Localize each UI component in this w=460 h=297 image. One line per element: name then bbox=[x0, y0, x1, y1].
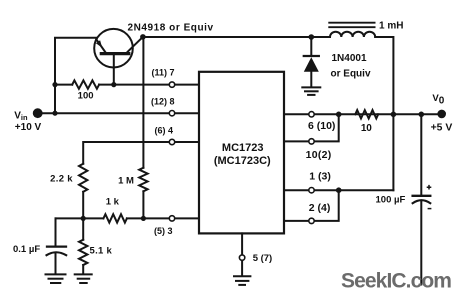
svg-text:6 (10): 6 (10) bbox=[308, 120, 335, 132]
svg-text:V0: V0 bbox=[432, 93, 444, 106]
svg-text:(MC1723C): (MC1723C) bbox=[214, 155, 271, 167]
svg-text:or Equiv: or Equiv bbox=[331, 69, 371, 80]
svg-text:MC1723: MC1723 bbox=[222, 142, 264, 154]
svg-text:1 mH: 1 mH bbox=[379, 21, 403, 32]
svg-text:100 µF: 100 µF bbox=[376, 195, 406, 206]
svg-text:(11) 7: (11) 7 bbox=[151, 68, 174, 78]
svg-text:10: 10 bbox=[361, 123, 372, 134]
svg-text:2.2 k: 2.2 k bbox=[50, 173, 73, 184]
svg-text:+5 V: +5 V bbox=[431, 123, 453, 134]
svg-text:5.1 k: 5.1 k bbox=[90, 245, 113, 256]
svg-text:1N4001: 1N4001 bbox=[332, 53, 367, 64]
svg-text:0.1 µF: 0.1 µF bbox=[13, 244, 40, 255]
svg-text:+10 V: +10 V bbox=[15, 122, 42, 133]
svg-text:5 (7): 5 (7) bbox=[253, 253, 273, 264]
svg-text:(6) 4: (6) 4 bbox=[154, 125, 173, 135]
svg-text:SeekIC.com: SeekIC.com bbox=[341, 270, 451, 293]
svg-text:2N4918 or Equiv: 2N4918 or Equiv bbox=[128, 22, 214, 33]
svg-text:10(2): 10(2) bbox=[306, 149, 332, 161]
svg-text:(5) 3: (5) 3 bbox=[154, 226, 173, 236]
svg-text:1 M: 1 M bbox=[118, 175, 134, 186]
svg-text:1 (3): 1 (3) bbox=[309, 171, 331, 183]
svg-text:2 (4): 2 (4) bbox=[309, 202, 331, 214]
svg-text:(12) 8: (12) 8 bbox=[151, 97, 175, 107]
svg-text:1 k: 1 k bbox=[106, 197, 120, 208]
svg-text:100: 100 bbox=[78, 91, 94, 102]
svg-text:Vin: Vin bbox=[14, 111, 28, 122]
